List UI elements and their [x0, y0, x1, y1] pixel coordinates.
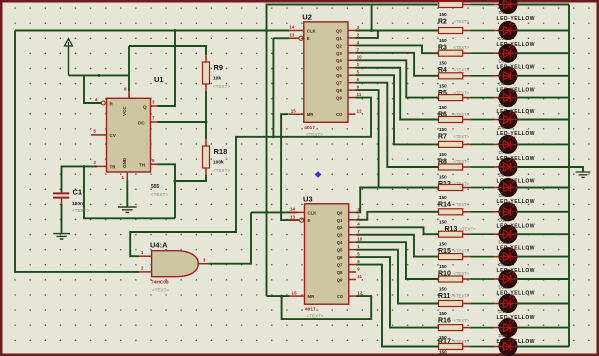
svg-text:Q5: Q5: [337, 248, 343, 253]
U3 Q8 stub: [349, 271, 356, 273]
junction CO loop on MR wire: [280, 295, 283, 298]
LED D6: [499, 111, 517, 129]
wire U4 input1 to U2 Q9: [130, 98, 371, 257]
U2 Q1 stub: [348, 37, 355, 39]
U2 Q4 stub: [348, 59, 355, 61]
wire R6 to LED D5: [463, 97, 471, 99]
power symbol VCC arrow: [65, 39, 73, 48]
svg-text:<TEXT>: <TEXT>: [454, 294, 470, 299]
svg-text:10k: 10k: [213, 76, 221, 82]
wire U3 Q3 to row R10: [356, 235, 438, 257]
svg-text:150: 150: [439, 195, 447, 200]
svg-text:D5: D5: [499, 103, 505, 108]
U3 Q6 stub: [349, 256, 356, 258]
wire LED D7 to rail: [517, 143, 569, 145]
wire LED D12 to rail: [517, 256, 569, 258]
svg-text:D11: D11: [499, 240, 508, 245]
ground symbol right rail: [576, 172, 591, 177]
svg-text:D1: D1: [499, 10, 505, 15]
wire VCC drop to U1 pin 8: [128, 75, 130, 91]
wire R8 to LED D7: [463, 143, 471, 145]
svg-text:<TEXT>: <TEXT>: [213, 84, 230, 89]
U3 E bubble: [300, 218, 304, 222]
wire U2 Q1 jog: [355, 31, 378, 38]
R18 bottom stub: [205, 168, 207, 175]
wire E2 from riser: [273, 37, 289, 39]
U2 Q5 stub: [348, 67, 355, 69]
svg-text:10: 10: [357, 237, 363, 242]
pin 6 stub U1 TH: [151, 163, 158, 165]
wire R2 to LED D1: [463, 4, 471, 6]
wire net row0 vertical: [267, 5, 438, 297]
junction TR branch: [83, 165, 86, 168]
svg-text:13: 13: [289, 32, 295, 37]
resistor R9: [203, 62, 210, 84]
wire LED D15 to rail: [517, 327, 569, 329]
wire rail ground stub: [569, 167, 583, 172]
wire U3 Q6 to row R17: [356, 257, 438, 328]
U2 MR stub: [289, 113, 304, 115]
resistor R bottom: [439, 344, 463, 350]
LED D8: [499, 158, 517, 176]
wire LED D13 to rail: [517, 278, 569, 280]
svg-text:D10: D10: [499, 217, 508, 222]
pin 2 stub U1 TR: [97, 165, 107, 167]
svg-text:74HC08: 74HC08: [151, 280, 169, 286]
svg-text:LED-YELLOW: LED-YELLOW: [497, 131, 536, 137]
svg-text:13: 13: [290, 214, 296, 219]
svg-text:Q9: Q9: [337, 277, 343, 282]
U2 Q9 stub: [348, 97, 355, 99]
svg-text:D7: D7: [499, 150, 505, 155]
svg-text:E: E: [308, 218, 311, 223]
U3 Q2 stub: [349, 226, 356, 228]
wire U2 Q7 to row R12: [355, 83, 438, 167]
wire GND down: [126, 180, 128, 206]
svg-text:CO: CO: [336, 112, 343, 117]
svg-text:LED-YELLOW: LED-YELLOW: [497, 291, 536, 297]
U4 pin 2 stub: [139, 271, 152, 273]
LED D14: [499, 295, 517, 313]
svg-text:TR: TR: [110, 165, 117, 170]
pin 3 stub U1 Q: [151, 105, 158, 107]
junction Q on clock rail: [174, 29, 177, 32]
svg-text:Q3: Q3: [336, 51, 342, 56]
svg-text:12: 12: [357, 291, 363, 296]
svg-text:R18: R18: [214, 147, 228, 156]
wire row feed: [438, 346, 439, 348]
wire LED D16 to rail: [517, 346, 569, 348]
resistor R11: [439, 276, 463, 282]
svg-text:150: 150: [439, 264, 447, 269]
U3 Q0 stub: [349, 211, 356, 213]
wire U2 Q8 to row R14: [355, 90, 438, 187]
svg-text:150: 150: [439, 127, 447, 132]
U2 Q6 stub: [348, 74, 355, 76]
U3 Q7 stub: [349, 264, 356, 266]
wire R17 to LED D15: [463, 327, 471, 329]
wire clock rail into U2 CLK: [288, 30, 290, 32]
svg-text:E: E: [307, 36, 310, 41]
U2 Q3 stub: [348, 52, 355, 54]
svg-text:11: 11: [357, 274, 362, 279]
svg-text:150: 150: [439, 61, 447, 66]
svg-text:R7: R7: [438, 134, 447, 141]
ground symbol under U1: [118, 207, 137, 212]
svg-text:150: 150: [439, 175, 447, 180]
U3 Q3 stub: [349, 234, 356, 236]
wire row R11 feed: [438, 278, 439, 280]
wire LED D2 to rail: [517, 30, 569, 32]
LED D4: [499, 67, 517, 85]
svg-text:CO: CO: [337, 294, 344, 299]
wire R9 to DC node: [205, 91, 207, 139]
wire LED D6 to rail: [517, 119, 569, 121]
resistor R2: [439, 2, 463, 8]
LED D15: [499, 319, 517, 337]
wire U3 Q7 to row last: [356, 265, 438, 347]
junction DC R9 R18: [205, 121, 208, 124]
wire R5 to LED D4: [463, 75, 471, 77]
wire DC to R column: [158, 121, 207, 123]
wire U2 Q6 to row R8: [355, 75, 438, 144]
resistor R6: [439, 95, 463, 101]
C1 bottom stub: [61, 198, 63, 204]
svg-text:VCC: VCC: [122, 106, 127, 116]
svg-text:150: 150: [439, 311, 447, 316]
resistor R8: [439, 141, 463, 147]
svg-text:Q1: Q1: [337, 218, 343, 223]
svg-text:150: 150: [439, 219, 447, 224]
svg-text:D4: D4: [499, 81, 505, 86]
U3 Q5 stub: [349, 249, 356, 251]
wire row R13 feed: [438, 211, 439, 213]
svg-text:Q8: Q8: [336, 88, 342, 93]
svg-text:100k: 100k: [213, 160, 224, 166]
svg-text:D3: D3: [499, 59, 505, 64]
U2 Q2 stub: [348, 44, 355, 46]
junction U3 clk: [265, 211, 268, 214]
svg-text:150: 150: [439, 152, 447, 157]
LED D16: [499, 338, 517, 356]
wire R12 to LED D8: [463, 166, 471, 168]
svg-text:Q4: Q4: [337, 240, 343, 245]
LED D7: [499, 135, 517, 153]
svg-text:U4:A: U4:A: [150, 241, 168, 250]
svg-text:R16: R16: [438, 318, 451, 325]
svg-text:LED-YELLOW: LED-YELLOW: [497, 16, 536, 22]
capacitor C1: [53, 193, 69, 197]
svg-text:CV: CV: [110, 133, 117, 138]
pin 7 stub U1 DC: [151, 121, 158, 123]
wire TH down: [158, 164, 176, 218]
svg-text:D13: D13: [499, 285, 508, 290]
wire U3 Q4 to row R11: [356, 242, 438, 279]
svg-text:Q0: Q0: [337, 210, 343, 215]
svg-text:R2: R2: [438, 19, 447, 26]
svg-text:<TEXT>: <TEXT>: [306, 132, 323, 137]
svg-text:D2: D2: [499, 36, 505, 41]
svg-text:<TEXT>: <TEXT>: [152, 288, 169, 293]
svg-text:4017: 4017: [304, 125, 315, 131]
pin 5 stub U1 CV: [91, 134, 107, 136]
svg-text:150: 150: [439, 287, 447, 292]
svg-text:D6: D6: [499, 125, 505, 130]
pin 4 bubble U1 reset: [101, 101, 105, 105]
pin 8 stub U1 VCC: [128, 91, 130, 98]
svg-text:D12: D12: [499, 262, 508, 267]
IC U1 555 timer body: [107, 98, 151, 172]
wire R11 to LED D13: [463, 278, 471, 280]
svg-text:11: 11: [357, 92, 362, 97]
LED D5: [499, 89, 517, 107]
wire R13 to LED D10: [463, 211, 471, 213]
wire U3 Q0 to row R14: [356, 188, 438, 213]
svg-text:D8: D8: [499, 173, 505, 178]
svg-text:MR: MR: [308, 294, 316, 299]
wire row R6 feed: [438, 97, 439, 99]
origin marker diamond: [315, 171, 322, 178]
resistor R14: [439, 185, 463, 191]
resistor R17: [439, 325, 463, 331]
wire LED D9 to rail: [517, 187, 569, 189]
svg-text:Q7: Q7: [337, 262, 343, 267]
svg-text:555: 555: [151, 184, 160, 190]
resistor R10: [439, 254, 463, 260]
wire LED D11 to rail: [517, 233, 569, 235]
U3 CLK stub: [290, 211, 305, 213]
wire clock rail top: [15, 30, 289, 32]
wire R4 to LED D3: [463, 52, 471, 54]
svg-text:Q0: Q0: [336, 28, 342, 33]
resistor R13: [439, 209, 463, 215]
U3 CO stub: [349, 295, 356, 297]
wire right rail: [568, 5, 570, 347]
svg-text:<TEXT>: <TEXT>: [454, 68, 470, 73]
wire U4 output to U3 CLK: [208, 212, 251, 263]
wire power to VCC rail: [69, 74, 130, 76]
wire U3 CLK left: [251, 211, 297, 213]
svg-text:150: 150: [439, 350, 447, 355]
LED D3: [499, 44, 517, 62]
svg-text:U1: U1: [154, 75, 164, 84]
wire TR to C1: [62, 166, 98, 192]
junction clock rail x266: [265, 29, 268, 32]
wire LED D8 to rail: [517, 166, 569, 168]
svg-text:<TEXT>: <TEXT>: [72, 208, 89, 213]
wire MR3 from net: [267, 295, 290, 297]
LED D13: [499, 270, 517, 288]
svg-text:14: 14: [290, 207, 296, 212]
wire C1 to ground: [61, 204, 63, 233]
wire row R3 feed: [438, 30, 439, 32]
svg-text:12: 12: [357, 109, 363, 114]
wire U3 Q2 to row R15: [356, 227, 438, 234]
ground symbol under C1: [53, 234, 70, 239]
resistor R5: [439, 73, 463, 79]
wire LED D14 to rail: [517, 303, 569, 305]
resistor R15: [439, 231, 463, 237]
svg-text:15: 15: [292, 290, 298, 295]
wire VCC top link: [128, 46, 130, 75]
svg-text:<TEXT>: <TEXT>: [454, 318, 470, 323]
svg-text:150: 150: [439, 242, 447, 247]
resistor R7: [439, 117, 463, 123]
wire U2 Q5 to row R7: [355, 68, 438, 120]
wire TR branch down: [84, 166, 175, 218]
wire U3 CO loop to MR net: [282, 296, 372, 319]
R18 top stub: [205, 139, 207, 146]
svg-text:Q2: Q2: [336, 43, 342, 48]
svg-text:<TEXT>: <TEXT>: [151, 192, 168, 197]
svg-text:Q6: Q6: [336, 73, 342, 78]
wire R3 to LED D2: [463, 30, 471, 32]
svg-text:MR: MR: [307, 112, 315, 117]
svg-text:CLK: CLK: [308, 210, 318, 215]
U3 Q4 stub: [349, 241, 356, 243]
svg-text:LED-YELLOW: LED-YELLOW: [497, 199, 536, 205]
U4 pin 1 stub: [139, 255, 152, 257]
svg-text:15: 15: [291, 108, 297, 113]
U2 Q7 stub: [348, 82, 355, 84]
svg-text:150: 150: [439, 12, 447, 17]
wire R7 to LED D6: [463, 119, 471, 121]
wire U3 Q1 to row R13: [356, 212, 438, 220]
wire to LED D16: [463, 346, 471, 348]
pin 1 stub U1 GND: [126, 172, 128, 180]
svg-text:R9: R9: [214, 63, 224, 72]
wire R16 to LED D14: [463, 303, 471, 305]
svg-text:<TEXT>: <TEXT>: [454, 134, 470, 139]
svg-text:Q2: Q2: [337, 225, 343, 230]
resistor R16: [439, 301, 463, 307]
svg-text:C1: C1: [73, 188, 83, 197]
wire power arrow stem: [68, 45, 70, 75]
wire row R5 feed: [438, 75, 439, 77]
U2 CO stub: [348, 113, 355, 115]
AND gate U4:A body: [152, 251, 199, 277]
svg-text:Q3: Q3: [337, 233, 343, 238]
U3 E stub: [290, 219, 300, 221]
wire row0 drop: [371, 5, 373, 31]
svg-text:D9: D9: [499, 193, 505, 198]
U2 E bubble: [299, 36, 303, 40]
wire U2 Q3 to row R5: [355, 53, 438, 76]
wire U3 Q5 to row R16: [356, 250, 438, 304]
LED D12: [499, 248, 517, 266]
svg-text:14: 14: [289, 25, 295, 30]
svg-text:Q: Q: [143, 105, 147, 110]
LED D2: [499, 22, 517, 40]
junction on power wire: [98, 74, 101, 77]
LED D9: [499, 179, 517, 197]
wire Q up to clock rail: [158, 31, 176, 107]
U2 Q8 stub: [348, 89, 355, 91]
wire U2 Q0 to row R2: [355, 30, 438, 32]
svg-text:10: 10: [357, 55, 363, 60]
wire row R10 feed: [438, 256, 439, 258]
svg-text:DC: DC: [138, 120, 145, 125]
U3 Q9 stub: [349, 278, 356, 280]
wire left rail: [15, 31, 139, 272]
wire row R8 feed: [438, 143, 439, 145]
wire MR2 to E3 vertical: [281, 114, 299, 220]
wire LED D4 to rail: [517, 75, 569, 77]
svg-text:D14: D14: [499, 309, 508, 314]
svg-text:<TEXT>: <TEXT>: [454, 19, 470, 24]
IC U2 4017 counter body: [304, 22, 348, 122]
LED D1: [499, 0, 517, 14]
junction row0 feed: [370, 29, 373, 32]
resistor R18: [203, 146, 210, 168]
svg-text:TH: TH: [139, 163, 146, 168]
svg-text:<TEXT>: <TEXT>: [454, 202, 470, 207]
junction TH R18 wire: [174, 180, 177, 183]
svg-text:150: 150: [439, 38, 447, 43]
U2 CLK stub: [289, 30, 304, 32]
U3 MR stub: [290, 295, 305, 297]
svg-text:D16: D16: [499, 352, 508, 356]
svg-text:<TEXT>: <TEXT>: [307, 314, 324, 319]
resistor R12: [439, 164, 463, 170]
svg-text:R11: R11: [438, 293, 451, 300]
resistor R3: [439, 28, 463, 34]
svg-text:Q6: Q6: [337, 255, 343, 260]
wire row R7 feed: [438, 119, 439, 121]
wire branch to reset pin: [84, 75, 101, 103]
wire U2 E riser: [272, 38, 274, 137]
LED D11: [499, 225, 517, 243]
R9 top stub: [205, 55, 207, 62]
wire row R12 feed: [438, 166, 439, 168]
wire row R14 feed: [438, 187, 439, 189]
svg-text:<TEXT>: <TEXT>: [454, 249, 470, 254]
U4 pin 3 stub: [198, 263, 208, 265]
wire R14 to LED D9: [463, 187, 471, 189]
wire LED D3 to rail: [517, 52, 569, 54]
wire U2 Q2 to row R4: [355, 45, 438, 53]
resistor R4: [439, 50, 463, 56]
U2 Q0 stub: [348, 30, 355, 32]
svg-text:<TEXT>: <TEXT>: [454, 271, 470, 276]
svg-text:<TEXT>: <TEXT>: [460, 226, 476, 231]
junction E riser: [272, 135, 275, 138]
svg-text:R14: R14: [438, 202, 451, 209]
svg-text:U2: U2: [302, 12, 312, 21]
wire LED D10 to rail: [517, 211, 569, 213]
U3 Q1 stub: [349, 219, 356, 221]
svg-text:150: 150: [439, 83, 447, 88]
wire R15 to LED D11: [463, 233, 471, 235]
LED D10: [499, 203, 517, 221]
svg-text:100n: 100n: [72, 201, 83, 207]
svg-text:GND: GND: [122, 157, 127, 168]
U2 E stub: [289, 37, 299, 39]
wire LED D5 to rail: [517, 97, 569, 99]
wire row R4 feed: [438, 52, 439, 54]
svg-text:150: 150: [439, 105, 447, 110]
svg-text:<TEXT>: <TEXT>: [213, 168, 230, 173]
svg-text:<TEXT>: <TEXT>: [454, 45, 470, 50]
wire row R15 feed: [438, 233, 439, 235]
wire clock-top to R9: [129, 46, 206, 55]
svg-text:U3: U3: [303, 194, 313, 203]
svg-text:Q1: Q1: [336, 36, 342, 41]
R9 bottom stub: [205, 84, 207, 91]
wire LED D1 to rail: [517, 4, 569, 6]
svg-text:Q4: Q4: [336, 58, 342, 63]
svg-text:<TEXT>: <TEXT>: [454, 159, 470, 164]
